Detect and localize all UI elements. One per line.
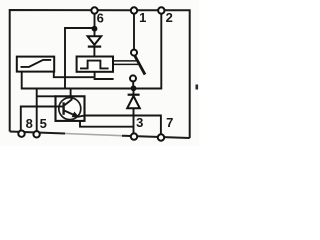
svg-text:2: 2	[166, 10, 173, 25]
svg-text:5: 5	[40, 116, 47, 131]
svg-text:8: 8	[26, 116, 33, 131]
svg-text:1: 1	[139, 10, 146, 25]
svg-text:6: 6	[97, 10, 104, 25]
svg-text:7: 7	[166, 115, 173, 130]
svg-text:3: 3	[136, 115, 143, 130]
